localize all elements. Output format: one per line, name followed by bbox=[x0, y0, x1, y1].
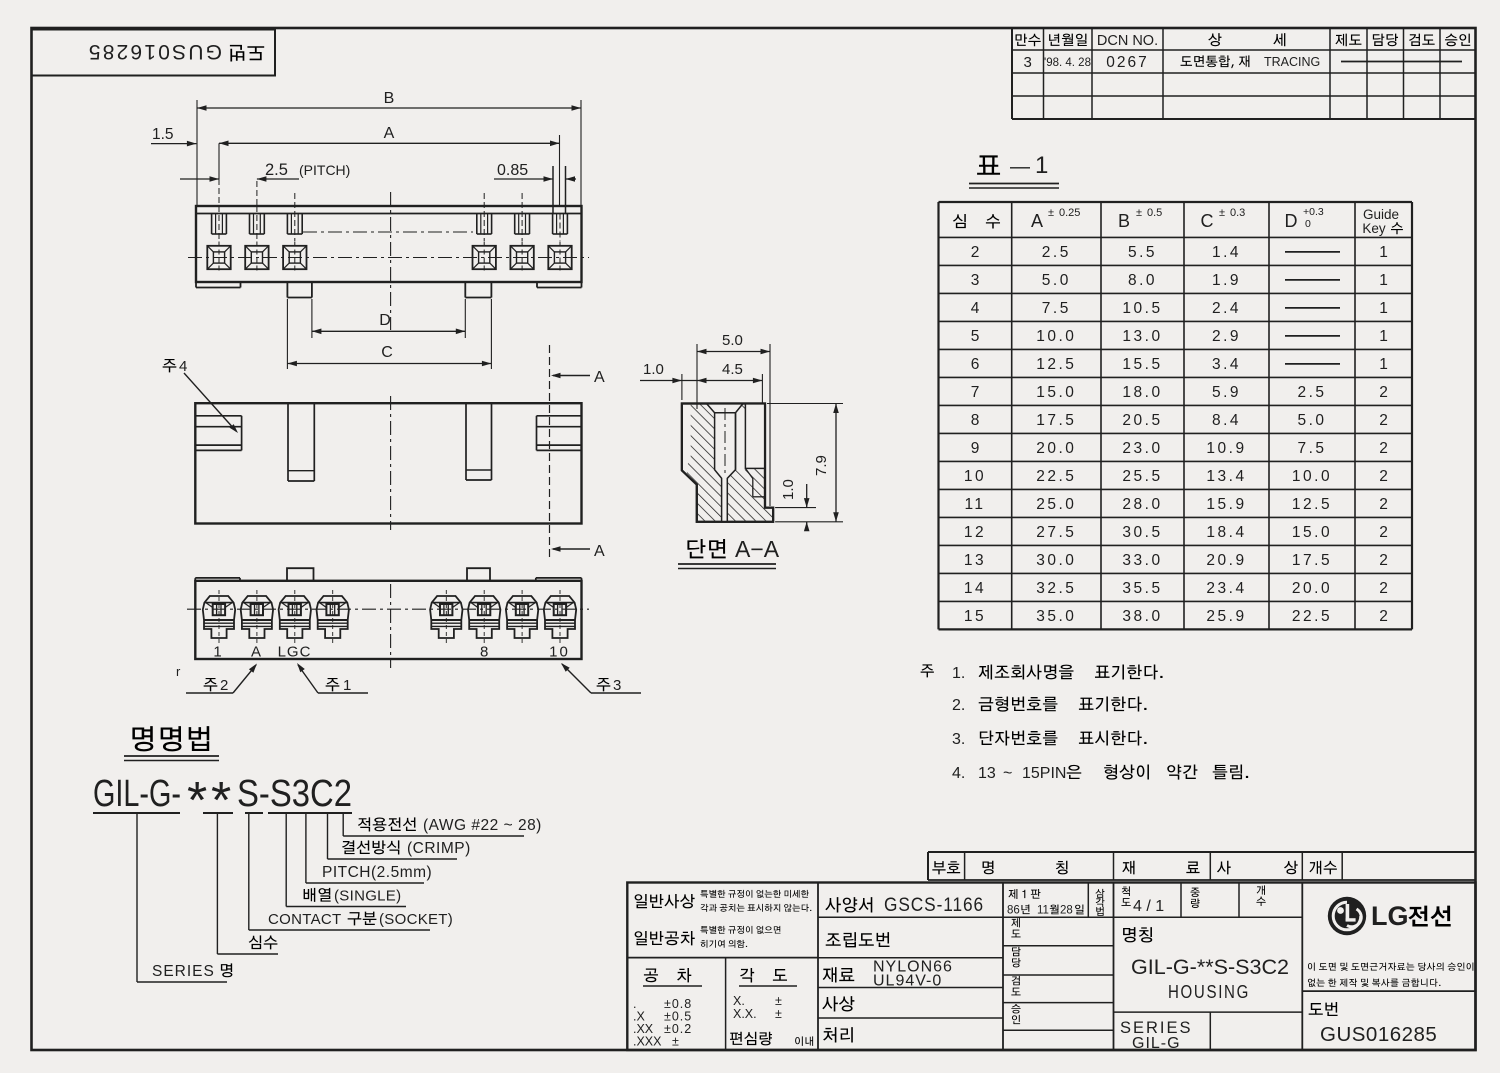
svg-text:32.5: 32.5 bbox=[1036, 580, 1076, 597]
note ju4 leader bbox=[163, 359, 177, 372]
svg-text:2.9: 2.9 bbox=[1212, 328, 1241, 345]
svg-text:2: 2 bbox=[1379, 552, 1388, 569]
svg-text:10.0: 10.0 bbox=[1036, 328, 1076, 345]
retaining posts bbox=[211, 214, 213, 235]
dim 7.9 bbox=[767, 403, 843, 405]
svg-text:13: 13 bbox=[978, 765, 996, 782]
svg-text:+0.3: +0.3 bbox=[1303, 206, 1324, 218]
svg-text:4 / 1: 4 / 1 bbox=[1133, 898, 1164, 915]
svg-text:1: 1 bbox=[1379, 328, 1388, 345]
svg-text:5.9: 5.9 bbox=[1212, 384, 1241, 401]
svg-text:r: r bbox=[176, 664, 181, 679]
svg-text:0.85: 0.85 bbox=[497, 162, 528, 179]
svg-text:A: A bbox=[594, 543, 605, 560]
svg-text:2: 2 bbox=[971, 244, 980, 261]
svg-text:20.0: 20.0 bbox=[1036, 440, 1076, 457]
svg-text:—: — bbox=[1010, 156, 1030, 178]
svg-text:'98. 4. 28: '98. 4. 28 bbox=[1044, 57, 1091, 69]
svg-text:28: 28 bbox=[1060, 905, 1073, 917]
svg-text:C: C bbox=[1201, 211, 1214, 231]
svg-text:35.5: 35.5 bbox=[1122, 580, 1162, 597]
top view: dimension A bbox=[219, 142, 560, 144]
revision table bbox=[1012, 27, 1476, 29]
svg-text:GSCS-1166: GSCS-1166 bbox=[884, 895, 984, 916]
hatched right wall bbox=[727, 468, 773, 521]
svg-text:8.4: 8.4 bbox=[1212, 412, 1241, 429]
svg-text:2.4: 2.4 bbox=[1212, 300, 1241, 317]
svg-text:23.4: 23.4 bbox=[1206, 580, 1246, 597]
svg-text:2: 2 bbox=[1379, 496, 1388, 513]
top view: dimension 2.5 PITCH bbox=[180, 178, 219, 180]
left column bbox=[817, 883, 819, 1051]
svg-text:Guide: Guide bbox=[1363, 207, 1399, 222]
dobun cell bbox=[1309, 1003, 1323, 1015]
svg-text:GIL-G-**S-S3C2: GIL-G-**S-S3C2 bbox=[1131, 956, 1289, 979]
svg-text:23.0: 23.0 bbox=[1122, 440, 1162, 457]
svg-text:X.X.: X.X. bbox=[733, 1007, 757, 1021]
svg-text:0: 0 bbox=[1305, 218, 1311, 230]
svg-text:(SOCKET): (SOCKET) bbox=[379, 911, 453, 928]
svg-text:10.9: 10.9 bbox=[1206, 440, 1246, 457]
side view centreline bbox=[390, 396, 392, 530]
svg-text:*: * bbox=[211, 772, 231, 830]
terminal cavity (white) bbox=[707, 404, 744, 522]
middle column rows bbox=[818, 916, 1003, 918]
section arrow A top bbox=[553, 375, 590, 377]
top view: dimension B bbox=[197, 107, 581, 109]
svg-text:LG: LG bbox=[1371, 901, 1409, 931]
svg-text:0267: 0267 bbox=[1106, 54, 1148, 71]
svg-text:6: 6 bbox=[971, 356, 980, 373]
note ju3 leader bbox=[597, 678, 611, 691]
front view top pads bbox=[195, 577, 240, 579]
svg-text:B: B bbox=[384, 90, 395, 107]
dimension D bbox=[311, 299, 313, 338]
table title 표-1 bbox=[977, 155, 1000, 174]
series cell bbox=[1209, 1012, 1211, 1050]
svg-text:2.5: 2.5 bbox=[1042, 244, 1071, 261]
svg-text:1.0: 1.0 bbox=[643, 361, 664, 378]
svg-text:HOUSING: HOUSING bbox=[1168, 982, 1250, 1002]
scale/weight/qty row bbox=[1114, 916, 1303, 918]
svg-text:(CRIMP): (CRIMP) bbox=[407, 840, 471, 857]
svg-text:15.0: 15.0 bbox=[1036, 384, 1076, 401]
side view left latch bbox=[195, 415, 241, 417]
svg-text:1: 1 bbox=[1379, 356, 1388, 373]
svg-text:D: D bbox=[379, 312, 391, 329]
hatched right-top lip bbox=[728, 404, 745, 411]
pin cavity squares bbox=[207, 246, 230, 269]
front view guide key bumps bbox=[287, 568, 314, 581]
svg-text:(AWG #22 ~ 28): (AWG #22 ~ 28) bbox=[423, 817, 542, 834]
svg-text:4: 4 bbox=[179, 358, 187, 375]
svg-text:1: 1 bbox=[343, 677, 351, 694]
drawing-number stamp (rotated 180) bbox=[32, 30, 276, 76]
svg-text:±: ± bbox=[775, 994, 782, 1008]
svg-text:1: 1 bbox=[1379, 272, 1388, 289]
svg-text:10.5: 10.5 bbox=[1122, 300, 1162, 317]
svg-text:±: ± bbox=[1136, 207, 1142, 219]
svg-text:8.0: 8.0 bbox=[1128, 272, 1157, 289]
svg-text:30.0: 30.0 bbox=[1036, 552, 1076, 569]
svg-text:2: 2 bbox=[1379, 608, 1388, 625]
svg-text:13.0: 13.0 bbox=[1122, 328, 1162, 345]
svg-text:3.4: 3.4 bbox=[1212, 356, 1241, 373]
svg-text:14: 14 bbox=[964, 580, 986, 597]
svg-text:15PIN: 15PIN bbox=[1022, 765, 1066, 782]
svg-text:±: ± bbox=[672, 1035, 679, 1049]
dimension C bbox=[286, 299, 288, 369]
svg-text:28.0: 28.0 bbox=[1122, 496, 1162, 513]
right cavity (white) bbox=[745, 404, 765, 469]
leader: pitch bbox=[305, 813, 307, 883]
svg-text:B: B bbox=[1118, 211, 1130, 231]
svg-text:GIL-G: GIL-G bbox=[1132, 1035, 1181, 1052]
socket terminals bbox=[203, 596, 235, 638]
leader: crimp bbox=[327, 813, 329, 859]
svg-text:(SINGLE): (SINGLE) bbox=[334, 888, 401, 905]
svg-text:2: 2 bbox=[1379, 524, 1388, 541]
svg-text:12: 12 bbox=[964, 524, 986, 541]
svg-text:A: A bbox=[251, 644, 261, 661]
svg-text:GIL-G-: GIL-G- bbox=[93, 773, 181, 815]
svg-text:7.5: 7.5 bbox=[1042, 300, 1071, 317]
buho strip bbox=[928, 851, 1476, 853]
top view body outline bbox=[196, 206, 582, 282]
svg-text:0.5: 0.5 bbox=[1147, 207, 1162, 219]
svg-text:3: 3 bbox=[1024, 54, 1032, 71]
svg-text:11: 11 bbox=[964, 496, 985, 513]
svg-text:22.5: 22.5 bbox=[1036, 468, 1076, 485]
svg-text:13.4: 13.4 bbox=[1206, 468, 1246, 485]
svg-text:2: 2 bbox=[220, 677, 228, 694]
vertical centreline bbox=[390, 192, 392, 330]
LG logo bbox=[1302, 990, 1475, 992]
section arrow A bottom bbox=[553, 548, 590, 550]
svg-text:A: A bbox=[1031, 211, 1043, 231]
svg-text:.XXX: .XXX bbox=[633, 1035, 662, 1049]
svg-text:11: 11 bbox=[1037, 905, 1049, 917]
svg-text:12.5: 12.5 bbox=[1036, 356, 1076, 373]
svg-text:25.5: 25.5 bbox=[1122, 468, 1162, 485]
svg-text:38.0: 38.0 bbox=[1122, 608, 1162, 625]
svg-text:1.4: 1.4 bbox=[1212, 244, 1241, 261]
section line A-A bbox=[549, 345, 551, 560]
svg-text:±: ± bbox=[775, 1007, 782, 1021]
svg-text:GUS016285: GUS016285 bbox=[1320, 1023, 1437, 1046]
naming title bbox=[132, 726, 153, 751]
svg-text:2.5: 2.5 bbox=[1297, 384, 1326, 401]
svg-text:3.: 3. bbox=[952, 731, 965, 748]
tolerance sub-table bbox=[644, 969, 658, 983]
svg-text:9: 9 bbox=[971, 440, 980, 457]
svg-text:3: 3 bbox=[613, 677, 621, 694]
side view body bbox=[195, 403, 581, 523]
svg-text:33.0: 33.0 bbox=[1122, 552, 1162, 569]
svg-text:7.9: 7.9 bbox=[813, 455, 830, 476]
svg-text:18.4: 18.4 bbox=[1206, 524, 1246, 541]
svg-text:PITCH(2.5mm): PITCH(2.5mm) bbox=[322, 864, 432, 881]
approval narrow column bbox=[1003, 916, 1114, 918]
centre notch steps bbox=[286, 282, 288, 298]
svg-text:15.9: 15.9 bbox=[1206, 496, 1246, 513]
pin centre dashes bbox=[294, 193, 296, 241]
svg-text:10: 10 bbox=[964, 468, 986, 485]
leader: contact bbox=[248, 813, 250, 930]
leader: wire range bbox=[342, 813, 344, 836]
svg-text:2.: 2. bbox=[952, 697, 965, 714]
svg-text:7.5: 7.5 bbox=[1297, 440, 1326, 457]
svg-text:15: 15 bbox=[964, 608, 986, 625]
hidden centreline between pin groups bbox=[303, 231, 473, 233]
copyright small print bbox=[1308, 962, 1315, 970]
section centreline bbox=[724, 408, 726, 474]
svg-text:10.0: 10.0 bbox=[1292, 468, 1332, 485]
svg-text:30.5: 30.5 bbox=[1122, 524, 1162, 541]
svg-text:Key: Key bbox=[1362, 221, 1386, 236]
table pyo-1 bbox=[939, 236, 1413, 238]
svg-text:UL94V-0: UL94V-0 bbox=[873, 973, 942, 990]
svg-text:4: 4 bbox=[971, 300, 980, 317]
name cell bbox=[1114, 1011, 1303, 1013]
section outline redraw bbox=[682, 404, 773, 522]
svg-text:27.5: 27.5 bbox=[1036, 524, 1076, 541]
guide slot at pin 10 bbox=[552, 166, 554, 214]
svg-text:1.: 1. bbox=[952, 665, 965, 682]
svg-text:A−A: A−A bbox=[735, 536, 780, 562]
svg-text:5.5: 5.5 bbox=[1128, 244, 1157, 261]
svg-text:4.5: 4.5 bbox=[722, 361, 743, 378]
svg-text:±: ± bbox=[1048, 207, 1054, 219]
svg-text:7: 7 bbox=[971, 384, 980, 401]
svg-text:13: 13 bbox=[964, 552, 986, 569]
svg-text:1: 1 bbox=[1379, 300, 1388, 317]
svg-text:25.0: 25.0 bbox=[1036, 496, 1076, 513]
front view centrelines bbox=[187, 608, 589, 610]
svg-text:A: A bbox=[594, 369, 605, 386]
svg-text:35.0: 35.0 bbox=[1036, 608, 1076, 625]
svg-text:(PITCH): (PITCH) bbox=[299, 162, 350, 178]
side view right latch bbox=[537, 415, 582, 417]
svg-text:15.0: 15.0 bbox=[1292, 524, 1332, 541]
svg-text:15.5: 15.5 bbox=[1122, 356, 1162, 373]
svg-text:1.5: 1.5 bbox=[152, 126, 174, 143]
flange line bbox=[196, 213, 582, 215]
svg-text:0.3: 0.3 bbox=[1230, 207, 1245, 219]
svg-text:8: 8 bbox=[971, 412, 980, 429]
svg-text:A: A bbox=[384, 125, 395, 142]
side view guide post right bbox=[465, 403, 467, 480]
svg-text:SERIES: SERIES bbox=[152, 963, 215, 980]
svg-text:20.5: 20.5 bbox=[1122, 412, 1162, 429]
svg-text:22.5: 22.5 bbox=[1292, 608, 1332, 625]
wall between cavities edge bbox=[735, 413, 737, 470]
svg-text:GUS016285: GUS016285 bbox=[87, 40, 222, 63]
svg-text:~: ~ bbox=[1003, 765, 1012, 782]
svg-text:20.0: 20.0 bbox=[1292, 580, 1332, 597]
svg-text:8: 8 bbox=[480, 644, 488, 661]
svg-text:2: 2 bbox=[1379, 468, 1388, 485]
svg-text:5.0: 5.0 bbox=[1297, 412, 1326, 429]
svg-text:5: 5 bbox=[971, 328, 980, 345]
svg-text:CONTACT: CONTACT bbox=[268, 911, 341, 928]
third angle symbol text bbox=[1095, 889, 1104, 898]
svg-text:1: 1 bbox=[1035, 152, 1048, 179]
dim 1.0 bottom bbox=[775, 507, 816, 509]
svg-text:17.5: 17.5 bbox=[1292, 552, 1332, 569]
svg-text:2.5: 2.5 bbox=[265, 161, 288, 179]
front view body bbox=[195, 581, 581, 659]
svg-text:4.: 4. bbox=[952, 765, 965, 782]
bottom profile of top view bbox=[196, 287, 241, 289]
leader: series bbox=[136, 813, 138, 982]
svg-text:2: 2 bbox=[1379, 384, 1388, 401]
svg-text:DCN NO.: DCN NO. bbox=[1097, 33, 1158, 49]
svg-text:±: ± bbox=[1219, 207, 1225, 219]
horizontal centreline through cavities bbox=[188, 257, 589, 259]
leader: simsu bbox=[216, 813, 218, 954]
hatched left wall bbox=[687, 404, 722, 522]
leader: baeyeol bbox=[285, 813, 287, 907]
svg-text:TRACING: TRACING bbox=[1264, 55, 1320, 69]
svg-text:1: 1 bbox=[1379, 244, 1388, 261]
svg-text:*: * bbox=[187, 772, 207, 830]
internal step lines right wall bbox=[745, 468, 752, 478]
svg-text:86: 86 bbox=[1007, 905, 1020, 917]
svg-text:1.0: 1.0 bbox=[780, 479, 797, 500]
svg-text:1: 1 bbox=[213, 644, 221, 661]
svg-text:5.0: 5.0 bbox=[722, 332, 743, 349]
svg-text:5.0: 5.0 bbox=[1042, 272, 1071, 289]
svg-text:2: 2 bbox=[1379, 440, 1388, 457]
svg-text:X.: X. bbox=[733, 994, 745, 1008]
svg-text:LGC: LGC bbox=[278, 644, 312, 661]
svg-text:C: C bbox=[381, 344, 393, 361]
svg-text:D: D bbox=[1285, 211, 1298, 231]
svg-text:12.5: 12.5 bbox=[1292, 496, 1332, 513]
title block outer bbox=[627, 883, 1475, 1051]
svg-text:20.9: 20.9 bbox=[1206, 552, 1246, 569]
side view guide post left bbox=[287, 403, 289, 481]
svg-text:25.9: 25.9 bbox=[1206, 608, 1246, 625]
section A-A body outline bbox=[682, 404, 773, 522]
svg-text:18.0: 18.0 bbox=[1122, 384, 1162, 401]
note ju1 leader bbox=[326, 678, 340, 691]
notes bbox=[921, 664, 934, 677]
svg-text:3: 3 bbox=[971, 272, 980, 289]
svg-text:17.5: 17.5 bbox=[1036, 412, 1076, 429]
part number underlines bbox=[93, 812, 180, 814]
svg-text:10: 10 bbox=[549, 644, 570, 661]
svg-text:2: 2 bbox=[1379, 412, 1388, 429]
svg-text:0.25: 0.25 bbox=[1059, 207, 1080, 219]
svg-text:1.9: 1.9 bbox=[1212, 272, 1241, 289]
svg-text:2: 2 bbox=[1379, 580, 1388, 597]
svg-text:S-S3C2: S-S3C2 bbox=[237, 773, 352, 815]
label section A-A bbox=[687, 539, 705, 558]
